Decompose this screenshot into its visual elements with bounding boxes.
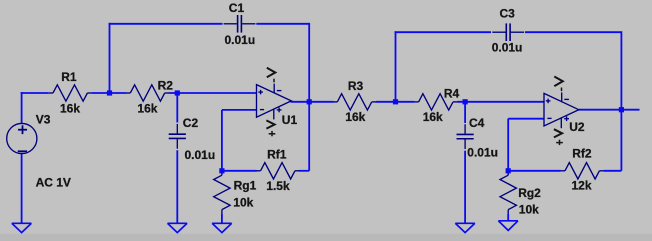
svg-text:0.01u: 0.01u	[492, 41, 523, 55]
svg-text:R4: R4	[444, 87, 460, 101]
svg-text:Rf1: Rf1	[267, 148, 287, 162]
svg-text:Rg2: Rg2	[518, 186, 541, 200]
svg-text:U1: U1	[282, 113, 298, 127]
svg-text:AC 1V: AC 1V	[36, 175, 71, 189]
svg-text:R2: R2	[158, 78, 174, 92]
svg-text:R1: R1	[61, 70, 77, 84]
svg-text:C1: C1	[229, 1, 245, 15]
svg-text:16k: 16k	[345, 110, 365, 124]
svg-text:V3: V3	[36, 113, 51, 127]
svg-text:0.01u: 0.01u	[225, 33, 256, 47]
svg-text:Rf2: Rf2	[572, 147, 592, 161]
svg-text:U2: U2	[569, 120, 585, 134]
svg-text:16k: 16k	[423, 110, 443, 124]
svg-text:C2: C2	[183, 116, 199, 130]
svg-text:16k: 16k	[137, 101, 157, 115]
svg-text:16k: 16k	[60, 101, 80, 115]
svg-text:0.01u: 0.01u	[467, 146, 498, 160]
svg-text:10k: 10k	[519, 203, 539, 217]
svg-text:C4: C4	[469, 116, 485, 130]
svg-text:10k: 10k	[233, 196, 253, 210]
svg-text:12k: 12k	[572, 179, 592, 193]
svg-text:C3: C3	[500, 7, 516, 21]
svg-text:Rg1: Rg1	[234, 179, 257, 193]
svg-text:R3: R3	[348, 79, 364, 93]
svg-text:0.01u: 0.01u	[185, 148, 216, 162]
svg-text:1.5k: 1.5k	[266, 179, 290, 193]
